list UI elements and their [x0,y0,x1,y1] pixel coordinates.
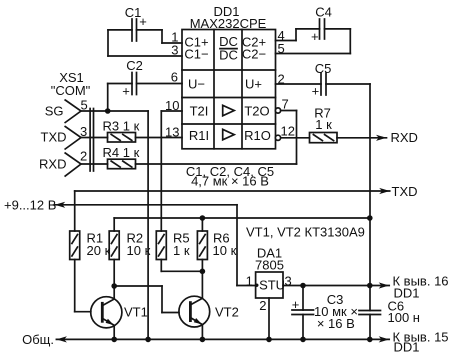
svg-text:2: 2 [80,149,87,164]
svg-text:4,7 мк × 16 В: 4,7 мк × 16 В [191,174,269,189]
svg-text:VT2: VT2 [215,305,239,320]
svg-text:+: + [311,29,319,44]
svg-text:20 к: 20 к [87,243,111,258]
svg-text:1 к: 1 к [315,117,332,132]
svg-text:C2−: C2− [242,46,266,61]
svg-text:TXD: TXD [392,184,418,199]
svg-text:1 к: 1 к [173,243,190,258]
svg-text:+: + [312,84,320,99]
svg-text:C5: C5 [315,61,332,76]
svg-text:2: 2 [278,72,285,87]
svg-text:7805: 7805 [255,258,284,273]
svg-text:12: 12 [281,124,295,139]
svg-text:13: 13 [165,125,179,140]
svg-text:DC: DC [219,34,238,49]
svg-text:R1O: R1O [244,128,271,143]
svg-text:1: 1 [246,274,253,289]
svg-text:C1−: C1− [184,46,208,61]
svg-text:DD1: DD1 [394,286,420,301]
svg-text:U+: U+ [245,77,262,92]
svg-text:VT1, VT2 КТ3130А9: VT1, VT2 КТ3130А9 [246,225,365,240]
svg-text:100 н: 100 н [388,310,420,325]
svg-text:Общ.: Общ. [22,332,54,347]
svg-text:DC: DC [219,48,238,63]
svg-text:"COM": "COM" [51,83,91,98]
svg-text:10: 10 [165,98,179,113]
svg-text:+9...12 В: +9...12 В [4,198,56,213]
svg-text:SG: SG [45,104,64,119]
svg-text:5: 5 [81,98,88,113]
svg-text:MAX232CPE: MAX232CPE [190,16,267,31]
svg-text:•STU: •STU [255,277,286,292]
svg-text:RXD: RXD [39,157,66,172]
svg-text:U−: U− [188,77,205,92]
svg-text:R4 1 к: R4 1 к [103,145,140,160]
svg-text:T2O: T2O [244,103,269,118]
svg-text:+: + [122,84,130,99]
svg-text:5: 5 [278,41,285,56]
svg-text:R1I: R1I [189,128,209,143]
svg-text:C4: C4 [315,5,332,20]
svg-text:+: + [139,14,147,29]
svg-text:VT1: VT1 [124,305,148,320]
svg-text:× 16 В: × 16 В [317,316,355,331]
svg-text:TXD: TXD [41,130,67,145]
svg-text:7: 7 [282,97,289,112]
svg-text:T2I: T2I [190,103,209,118]
svg-text:3: 3 [80,124,87,139]
svg-text:3: 3 [171,43,178,58]
svg-text:R3 1 к: R3 1 к [103,119,140,134]
svg-text:C2: C2 [126,58,143,73]
svg-text:DD1: DD1 [394,340,420,352]
svg-text:10 к: 10 к [213,243,237,258]
svg-text:6: 6 [171,70,178,85]
svg-text:10 к: 10 к [127,243,151,258]
svg-text:3: 3 [285,274,292,289]
svg-text:+: + [292,297,300,312]
svg-text:2: 2 [259,298,266,313]
svg-text:RXD: RXD [391,130,418,145]
